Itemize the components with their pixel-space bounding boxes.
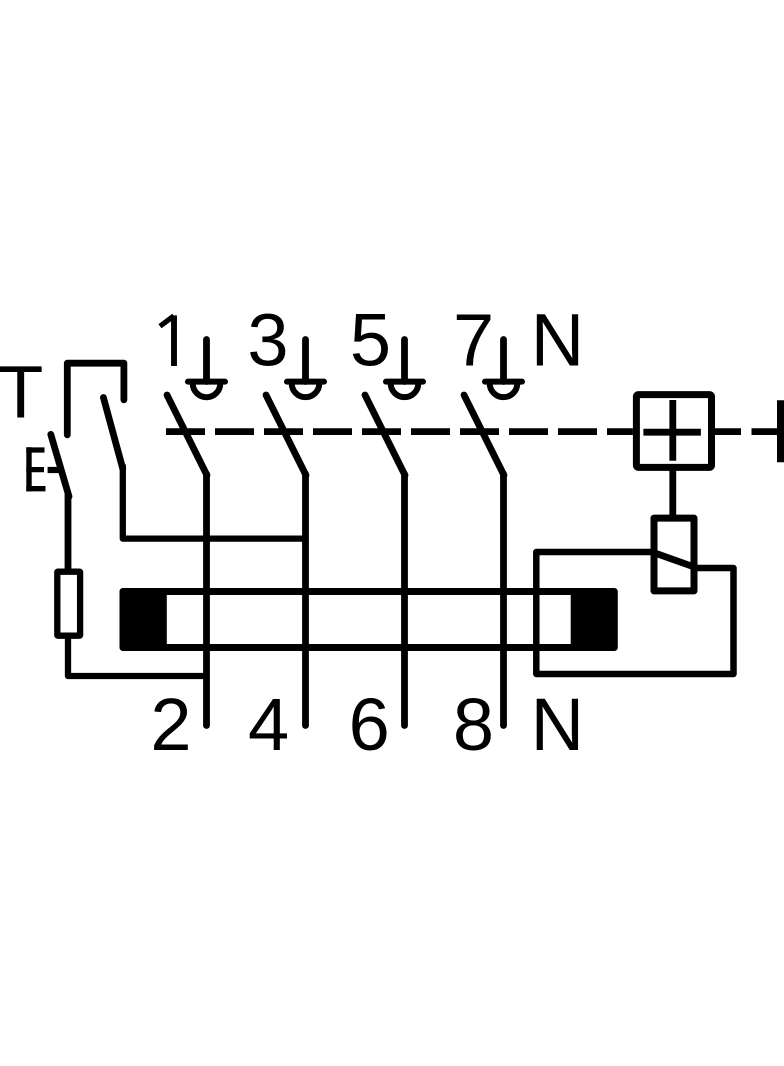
handle bar at right edge xyxy=(777,400,784,462)
terminal 3 (stem, bar, cup) xyxy=(287,340,324,398)
CT core right mark (filled) xyxy=(571,588,616,650)
mechanical link dash from E to test blade xyxy=(48,467,60,473)
wire: bridge of test circuit (inverted U) xyxy=(67,363,124,435)
switch blade E (test contact, open) xyxy=(51,434,69,496)
wire pole 4 conductor through CT to terminal 8/N xyxy=(500,474,507,726)
svg-text:2: 2 xyxy=(150,683,191,766)
wire pole 2 conductor through CT to terminal 4 xyxy=(302,474,309,726)
wire pole 3 conductor through CT to terminal 6 xyxy=(401,474,408,726)
wire actuator to trip relay xyxy=(669,467,676,516)
wire: resistor bottom to pole 1 conductor xyxy=(68,638,207,676)
wire: test blade down and over to pole 2 conductor xyxy=(123,466,306,539)
label E xyxy=(26,447,45,491)
svg-text:3: 3 xyxy=(247,299,288,382)
terminal 7/N (stem, bar, cup) xyxy=(485,340,522,398)
svg-text:4: 4 xyxy=(248,683,289,766)
svg-text:8: 8 xyxy=(453,683,494,766)
wire: E switch to resistor xyxy=(65,494,72,569)
secondary winding loop: box top / left / bottom / right xyxy=(536,552,733,674)
wire through relay (diagonal) xyxy=(652,552,697,568)
svg-text:N: N xyxy=(531,299,584,382)
actuator box (manual operating mechanism) xyxy=(636,395,711,468)
svg-text:7: 7 xyxy=(453,299,494,382)
terminal 5 (stem, bar, cup) xyxy=(386,340,423,398)
wire pole 1 conductor through CT to terminal 2 xyxy=(203,474,210,726)
svg-text:N: N xyxy=(531,683,584,766)
terminal 1 (stem, bar, cup) xyxy=(188,340,225,398)
svg-text:6: 6 xyxy=(349,683,390,766)
pole 2 switch blade (open) xyxy=(266,395,306,475)
switch blade T (test button contact, open) xyxy=(103,398,122,469)
plus sign inside actuator xyxy=(669,400,676,461)
pole 1 switch blade (open) xyxy=(167,395,207,475)
mechanical linkage (dashed) actuator to handle xyxy=(715,428,777,435)
resistor (test resistor) xyxy=(57,572,80,636)
current transformer core (toroid band) xyxy=(123,592,614,648)
trip relay (residual current release) box xyxy=(654,518,694,591)
CT core left mark (filled) xyxy=(120,588,167,651)
svg-text:T: T xyxy=(0,351,43,434)
mechanical linkage (dashed) across poles to actuator xyxy=(166,428,633,435)
svg-text:5: 5 xyxy=(350,299,391,382)
label 1 (drawn: helvetica-style numeral without foot serif) xyxy=(160,315,174,366)
pole 3 switch blade (open) xyxy=(365,395,405,475)
pole 4 switch blade (open) xyxy=(464,395,504,475)
